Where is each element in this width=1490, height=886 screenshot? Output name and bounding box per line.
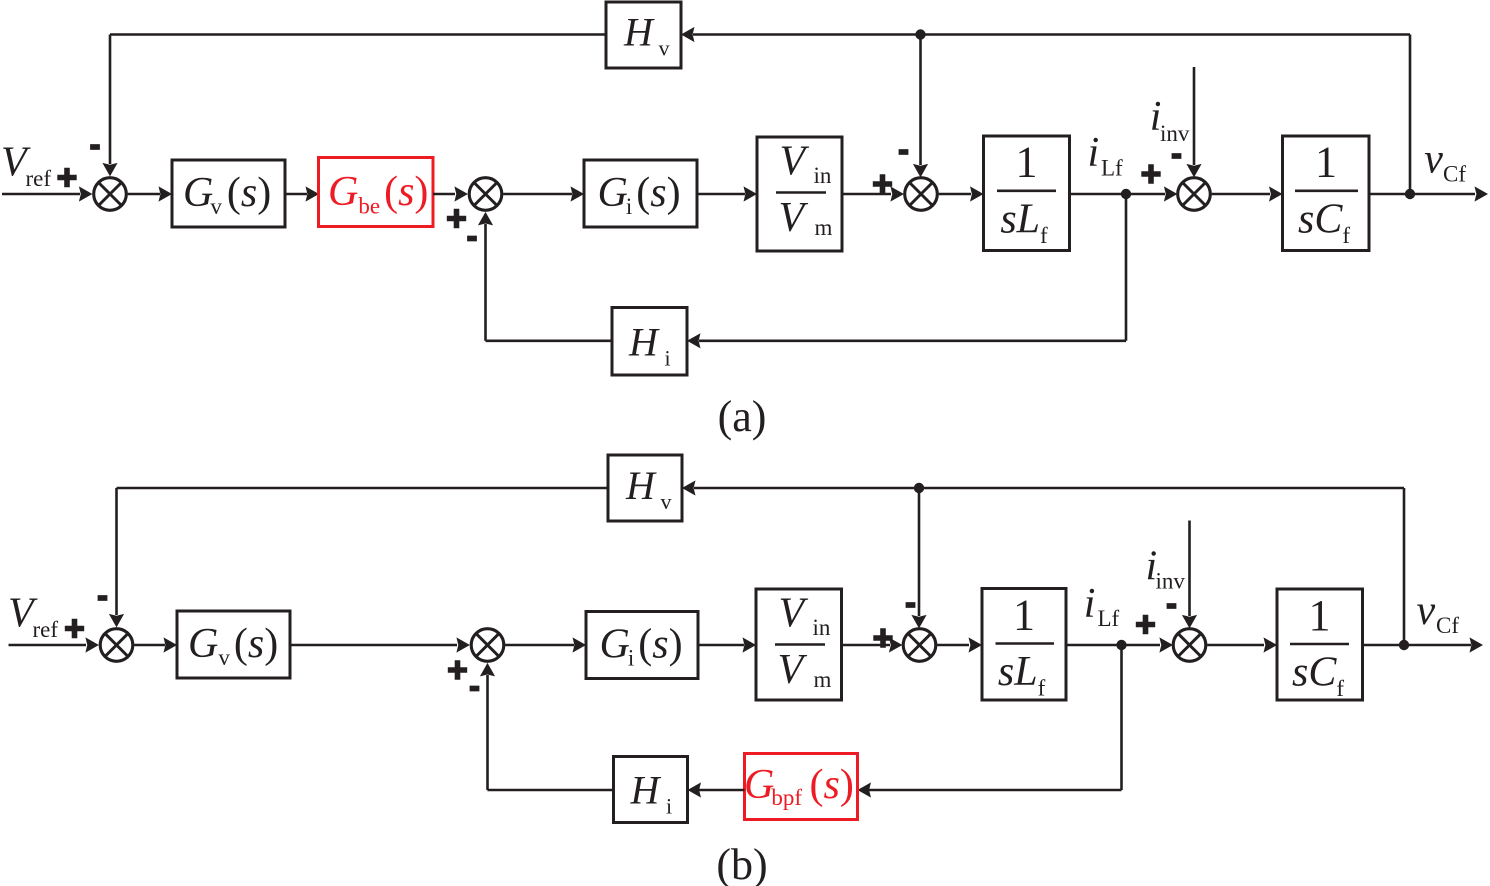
block Hi of diagram b	[614, 757, 688, 823]
summing junction S1b	[100, 629, 133, 662]
svg-text:sLf: sLf	[998, 649, 1046, 701]
svg-text:inv: inv	[1156, 569, 1186, 594]
summing junction S1a	[94, 178, 127, 211]
svg-text:1: 1	[1016, 138, 1038, 187]
block Gbe(s) of diagram a (red)	[319, 158, 434, 227]
wire iLf node down to Gbpf feedback b	[1120, 645, 1123, 790]
wire summer S4a to block 1/sCf	[1212, 186, 1283, 201]
wire output tap up to Hv feedback	[1409, 35, 1412, 195]
minus sign at summer S3b	[906, 604, 916, 606]
block 1/sCf of diagram a	[1283, 136, 1370, 251]
block Gi(s) of diagram b	[586, 612, 698, 679]
wire output tap up to Hv feedback b	[1403, 488, 1406, 645]
plus sign at summer S4b	[1136, 615, 1155, 634]
minus sign at summer S4a	[1172, 155, 1182, 157]
block Gv(s) of diagram a	[172, 160, 285, 227]
svg-text:V: V	[779, 195, 809, 241]
wire iinv input down into summer S4b	[1182, 521, 1197, 629]
wire Vref input to summer S1a	[2, 186, 92, 201]
svg-text:V: V	[779, 591, 809, 637]
plus sign at summer S1a	[57, 168, 76, 187]
svg-text:v: v	[1417, 588, 1436, 634]
svg-text:i: i	[1088, 130, 1100, 176]
svg-text:(b): (b)	[716, 840, 767, 886]
wire Vref input to summer S1b	[9, 637, 99, 652]
minus sign at summer S3a	[899, 151, 909, 153]
wire block 1/sLf b to summer S4b	[1066, 637, 1173, 652]
node dot junction iLf b	[1116, 640, 1126, 650]
wire summer S1b to block Gv b	[134, 637, 177, 652]
svg-text:1: 1	[1315, 138, 1337, 187]
svg-text:H: H	[623, 10, 655, 55]
wire Hv feedback left segment b	[117, 487, 609, 490]
wire Hi feedback up into summer S2b	[480, 663, 495, 790]
wire summer S2b to block Gi b	[505, 637, 586, 652]
svg-text:i: i	[1084, 581, 1096, 627]
svg-text:i: i	[665, 346, 671, 371]
svg-text:in: in	[813, 615, 831, 640]
wire summer S3a to block 1/sLf	[939, 186, 984, 201]
wire Hi feedback up into summer S2a	[478, 212, 493, 341]
svg-text:ref: ref	[33, 617, 59, 642]
block Gi(s) of diagram a	[584, 160, 697, 227]
svg-text:v: v	[659, 36, 670, 61]
wire summer S2a to block Gi	[503, 186, 584, 201]
summing junction S3b	[903, 629, 936, 662]
wire block Gv b to summer S2b	[290, 637, 470, 652]
minus sign at summer S2a	[467, 238, 477, 240]
plus sign at summer S2b	[448, 660, 467, 679]
node dot tap on Hv feedback wire b	[914, 483, 924, 493]
block Gv(s) of diagram b	[177, 611, 290, 678]
svg-text:Cf: Cf	[1436, 613, 1459, 638]
svg-text:Cf: Cf	[1443, 162, 1466, 187]
svg-text:Gi(s): Gi(s)	[598, 170, 681, 219]
block Vin/Vm of diagram a	[757, 137, 842, 251]
svg-text:in: in	[814, 163, 832, 188]
block Vin/Vm of diagram b	[756, 589, 842, 700]
minus sign at summer S1a	[90, 146, 100, 148]
svg-text:Gv(s): Gv(s)	[188, 621, 278, 670]
wire block 1/sCf to vCf output	[1369, 186, 1488, 201]
wire iLf node down to Hi feedback	[1125, 194, 1128, 341]
node iLf label	[1088, 130, 1124, 181]
summing junction S3a	[905, 178, 938, 211]
block 1/sLf of diagram a	[984, 136, 1070, 251]
wire iinv input down into summer S4a	[1186, 67, 1201, 177]
minus sign at summer S2b	[470, 688, 480, 690]
svg-text:m: m	[815, 215, 833, 240]
block Hv of diagram b	[608, 455, 682, 521]
wire block Vin/Vm to summer S3a	[842, 186, 904, 201]
summing junction S4b	[1173, 629, 1206, 662]
svg-text:Gv(s): Gv(s)	[183, 170, 271, 219]
plus sign at summer S3a	[873, 174, 892, 193]
node dot tap on Hv feedback wire	[915, 29, 925, 39]
wire block 1/sCf b to vCf output b	[1363, 637, 1484, 652]
plus sign at summer S3b	[873, 628, 892, 647]
wire Gbpf feedback right segment b	[858, 782, 1122, 797]
wire block Vin/Vm b to summer S3b	[842, 637, 903, 652]
svg-text:sCf: sCf	[1292, 650, 1344, 702]
node dot junction iLf	[1121, 189, 1131, 199]
wire Hi feedback right segment	[687, 333, 1126, 348]
svg-text:V: V	[780, 139, 810, 185]
minus sign at summer S4b	[1167, 605, 1177, 607]
plus sign at summer S2a	[447, 209, 466, 228]
node iinv input label b	[1146, 544, 1186, 594]
block Hi of diagram a	[612, 308, 687, 376]
wire block Gbe to summer S2a	[433, 186, 468, 201]
svg-text:i: i	[666, 794, 672, 819]
svg-text:m: m	[814, 667, 832, 692]
svg-text:ref: ref	[26, 166, 52, 191]
wire summer S1a to block Gv	[128, 186, 172, 201]
wire block Gi to block Vin/Vm	[697, 186, 757, 201]
wire block Gv to block Gbe	[285, 186, 319, 201]
svg-text:sLf: sLf	[1000, 197, 1048, 249]
wire summer S4b to block 1/sCf b	[1207, 637, 1277, 652]
svg-text:Lf: Lf	[1101, 156, 1123, 181]
wire tap down into summer S3b	[911, 488, 926, 628]
svg-text:1: 1	[1013, 591, 1035, 640]
minus sign at summer S1b	[98, 597, 108, 599]
svg-text:v: v	[661, 489, 672, 514]
svg-text:H: H	[630, 768, 662, 813]
node iLf label b	[1084, 581, 1120, 631]
svg-text:H: H	[625, 463, 657, 508]
svg-text:1: 1	[1309, 591, 1331, 640]
wire Hv feedback left segment	[110, 33, 606, 36]
summing junction S4a	[1178, 178, 1211, 211]
svg-text:inv: inv	[1160, 121, 1190, 146]
wire tap down into summer S3a	[913, 35, 928, 178]
wire Hv feedback down into summer S1a	[102, 35, 117, 177]
node Vref input label b	[8, 591, 58, 643]
node Vref input label	[1, 140, 51, 192]
svg-text:Gi(s): Gi(s)	[600, 622, 683, 671]
svg-text:Gbpf(s): Gbpf(s)	[744, 762, 854, 810]
wire Hv feedback down into summer S1b	[109, 488, 124, 627]
svg-text:Gbe(s): Gbe(s)	[328, 169, 428, 219]
wire block 1/sLf to summer S4a	[1070, 186, 1178, 201]
block Gbpf(s) of diagram b (red)	[744, 754, 858, 820]
wire block Gbpf to block Hi b	[688, 782, 745, 797]
summing junction S2a	[469, 178, 502, 211]
plus sign at summer S1b	[65, 619, 84, 638]
node dot output tap vCf	[1405, 189, 1415, 199]
summing junction S2b	[471, 629, 504, 662]
svg-text:v: v	[1424, 137, 1443, 183]
block 1/sLf of diagram b	[982, 589, 1066, 701]
svg-text:V: V	[778, 647, 808, 693]
node vCf output label b	[1417, 588, 1460, 638]
plus sign at summer S4a	[1141, 164, 1160, 183]
wire Hv feedback right segment b	[682, 480, 1404, 495]
node iinv input label	[1150, 94, 1190, 146]
svg-text:Lf: Lf	[1098, 606, 1120, 631]
svg-text:(a): (a)	[718, 392, 767, 441]
wire block Gi b to block Vin/Vm b	[698, 637, 756, 652]
block 1/sCf of diagram b	[1277, 589, 1363, 701]
svg-text:H: H	[628, 320, 660, 365]
wire Hv feedback right segment	[681, 27, 1410, 42]
node dot output tap vCf b	[1399, 640, 1409, 650]
wire Hi feedback left segment	[486, 339, 613, 342]
svg-text:sCf: sCf	[1298, 197, 1350, 249]
node vCf output label	[1424, 137, 1466, 187]
block Hv of diagram a	[606, 2, 681, 68]
wire Hi feedback left segment b	[488, 789, 614, 792]
wire summer S3b to block 1/sLf b	[937, 637, 982, 652]
